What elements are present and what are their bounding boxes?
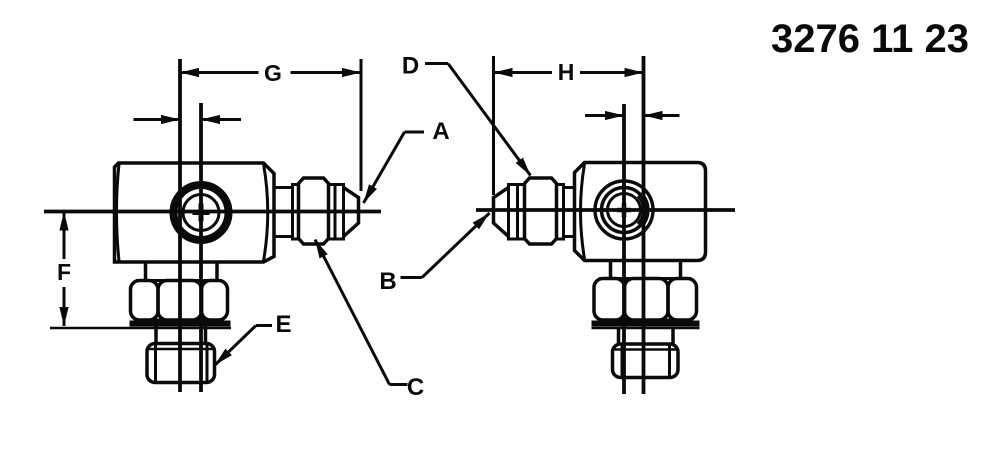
fig2 lower hex top chamfer line	[614, 348, 677, 351]
fig1 lower hex outline	[147, 344, 215, 383]
fig1 male hex	[299, 178, 329, 244]
dimension H line left segment with arrow	[494, 71, 553, 74]
dimension G line left segment with arrow	[180, 71, 259, 74]
fig1 body outline	[115, 163, 275, 262]
fig2 upper hex top line	[599, 277, 691, 280]
svg-text:F: F	[57, 259, 71, 285]
svg-text:A: A	[432, 118, 449, 145]
fig1 stud axis vertical centerline	[178, 59, 182, 392]
fig1 lower hex top chamfer line	[149, 348, 213, 351]
fig2 flare cone	[494, 188, 509, 237]
fig2 lower hex outline	[613, 344, 679, 378]
svg-text:H: H	[558, 59, 575, 85]
fig1 upper hex middle face	[158, 281, 202, 321]
dimension H extension line left	[492, 56, 495, 195]
fig1 washer	[130, 321, 231, 327]
fig1 male ring 3	[335, 185, 344, 240]
fig2 male ring 3	[509, 185, 518, 240]
label A leader arrow	[364, 132, 405, 203]
label E leader dash	[256, 324, 272, 327]
svg-text:E: E	[275, 311, 291, 338]
dimension H line right segment with arrow	[580, 71, 644, 74]
svg-text:C: C	[407, 374, 424, 401]
fig2 port center cross	[617, 203, 631, 218]
fig2 upper hex bottom line	[599, 319, 691, 322]
label C leader dash	[390, 383, 408, 386]
fig1 port center cross	[193, 204, 210, 222]
fig2 port ring A	[595, 181, 653, 239]
fig1 port outer ring	[174, 185, 229, 240]
fig2 port ring C	[608, 194, 641, 227]
fig1 male neck	[274, 188, 293, 237]
label A leader dash	[405, 131, 425, 134]
fig2 port dark crescent	[640, 195, 646, 226]
label C leader arrow	[315, 240, 390, 385]
fig1 flare cone	[344, 188, 359, 237]
svg-text:3276 11 23: 3276 11 23	[771, 17, 969, 61]
fig2 narrow dimension right segment	[644, 114, 680, 117]
dimension G line right segment with arrow	[291, 71, 362, 74]
fig2 body outline	[575, 163, 706, 261]
fig2 bottom neck	[611, 261, 681, 279]
dimension F line lower segment with arrow	[63, 287, 66, 326]
svg-text:D: D	[402, 53, 419, 80]
fig2 horizontal centerline	[476, 208, 735, 212]
dimension F line upper segment with arrow	[63, 212, 66, 260]
fig1 upper hex bottom line	[136, 319, 222, 322]
fig2 upper hex left face	[594, 279, 625, 321]
label B leader dash	[401, 276, 423, 279]
fig2 male hex	[525, 178, 557, 244]
label D leader dash	[425, 62, 448, 65]
fig1 male ring 2	[329, 185, 336, 240]
fig1 body right end arc	[264, 164, 268, 261]
fig1 bottom neck	[146, 264, 218, 282]
fig2 washer	[592, 321, 700, 327]
label B leader arrow	[422, 213, 490, 278]
fig1 port middle ring	[183, 195, 219, 231]
fig1 narrow dimension left segment	[134, 118, 181, 121]
fig1 port axis vertical centerline	[199, 103, 203, 392]
fig1 upper hex left face	[131, 281, 159, 321]
fig2 lower hex face lines	[622, 345, 670, 377]
fig1 upper hex top line	[136, 279, 222, 282]
label E leader arrow	[215, 326, 256, 366]
fig2 stud axis vertical centerline	[642, 56, 646, 394]
svg-text:B: B	[379, 268, 396, 295]
fig2 male ring 2	[518, 185, 525, 240]
fig2 body left end arc	[581, 164, 585, 259]
fig1 lower neck	[156, 327, 206, 345]
fig2 lower neck	[619, 327, 674, 344]
fig1 body left end arc	[117, 164, 120, 261]
fig1 washer bottom line and F extension line	[50, 327, 231, 330]
fig2 port ring B	[602, 188, 647, 233]
fig1 upper hex right face	[202, 281, 228, 321]
fig1 lower hex face lines	[156, 345, 208, 382]
fig1 horizontal centerline	[44, 210, 381, 214]
label D leader arrow	[448, 64, 531, 176]
svg-text:G: G	[264, 60, 282, 86]
fig1 male ring 1	[293, 185, 299, 240]
fig2 narrow dimension left segment	[585, 114, 624, 117]
fig2 port axis vertical centerline	[622, 104, 626, 394]
fig1 narrow dimension right segment	[201, 118, 241, 121]
fig2 upper hex right face	[668, 279, 697, 321]
fig2 male ring 1	[557, 185, 564, 240]
fig2 male neck	[564, 188, 575, 237]
fig2 washer bottom line	[592, 327, 700, 330]
fig2 upper hex middle face	[625, 279, 669, 321]
dimension G extension line right	[360, 59, 363, 191]
